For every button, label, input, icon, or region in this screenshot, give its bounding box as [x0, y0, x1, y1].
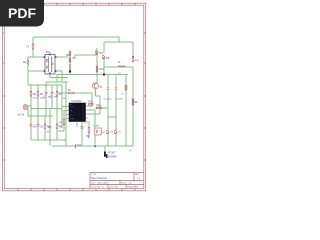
svg-text:AC IN: AC IN: [18, 114, 25, 117]
svg-text:RV: RV: [23, 61, 27, 64]
fuse F1: [27, 44, 34, 49]
IC U1 body: [69, 103, 86, 122]
svg-text:PC817: PC817: [93, 126, 100, 128]
capacitor C2: [50, 85, 58, 109]
resistor R3: [56, 85, 66, 109]
svg-text:R10: R10: [97, 105, 102, 107]
wire bridge output right: [50, 52, 68, 83]
zener Z1: [107, 129, 114, 134]
wire secondary rail: [97, 66, 133, 108]
junction node secondary: [103, 73, 105, 75]
svg-text:D3: D3: [100, 51, 104, 55]
inductor L1: [104, 62, 133, 75]
capacitor C3: [47, 109, 52, 147]
sense resistor tick: [76, 144, 82, 149]
svg-text:(24V/6R0): (24V/6R0): [106, 155, 117, 158]
resistor R9: [86, 121, 90, 139]
title block text: [91, 174, 141, 189]
transistor Q1: [93, 75, 104, 89]
capacitor C12: [81, 122, 89, 128]
svg-text:D6: D6: [106, 56, 110, 60]
wire opto links: [94, 121, 96, 146]
svg-text:New Channels: New Channels: [91, 177, 107, 180]
svg-text:Drawn By:: Drawn By:: [91, 187, 101, 189]
resistor R8 right: [132, 99, 138, 105]
capacitor C7: [121, 75, 127, 98]
optocoupler U2: [93, 126, 105, 136]
wire top rail: [33, 37, 119, 42]
resistor R2: [37, 85, 45, 109]
svg-text:JP OUT: JP OUT: [108, 153, 117, 155]
varistor RV1: [23, 60, 29, 65]
output port arrow: [104, 151, 117, 158]
AC connector J1: [18, 105, 28, 117]
wire IC connections: [58, 93, 100, 146]
ground arrow under snubber: [69, 64, 72, 74]
svg-text:VCC: VCC: [70, 106, 75, 108]
svg-text:GND: GND: [70, 118, 75, 120]
wire bulk rail left: [28, 71, 68, 85]
junction dot opto: [94, 145, 96, 147]
svg-text:2017-08-10: 2017-08-10: [98, 183, 110, 185]
wire AC line lower: [28, 108, 53, 116]
svg-text:HuadaSMD: HuadaSMD: [127, 187, 139, 189]
capacitor C1: [44, 82, 52, 116]
wire vertical feed columns: [62, 82, 66, 146]
zener Z2: [115, 129, 122, 134]
resistor R7 above IC: [68, 89, 74, 94]
svg-text:B1: B1: [46, 50, 50, 54]
resistor R4: [59, 119, 65, 132]
diode D4: [96, 60, 104, 75]
sheet border outer frame: [3, 3, 146, 191]
capacitor C5: [104, 75, 113, 101]
wire output rails bottom right: [105, 108, 133, 146]
resistor R14 on x133: [132, 56, 140, 62]
resistor R12 right of IC: [89, 101, 94, 106]
svg-text:Sheet:: Sheet:: [121, 182, 127, 185]
svg-text:Date:: Date:: [91, 182, 96, 185]
IC pin stubs: [67, 106, 89, 119]
resistor R5: [44, 116, 50, 140]
svg-text:REV:: REV:: [135, 174, 140, 176]
svg-text:R12: R12: [89, 101, 94, 104]
svg-text:U1 DK112: U1 DK112: [71, 101, 82, 103]
bridge rectifier B1: [44, 50, 57, 74]
diode D6 vertical right: [103, 55, 110, 75]
svg-text:Check By:: Check By:: [109, 187, 119, 189]
wire right columns: [96, 89, 127, 146]
resistor R6: [56, 109, 62, 141]
wire upper right step: [104, 42, 133, 58]
diode D3: [96, 48, 104, 60]
svg-text:TITLE:: TITLE:: [91, 174, 97, 176]
wire bottom rails: [31, 131, 105, 152]
wire AC line upper: [28, 106, 62, 109]
resistor R10: [97, 105, 102, 109]
wire AC upper to bridge: [28, 57, 44, 71]
electrolytic cap C8: [29, 109, 36, 141]
capacitor C6: [115, 75, 124, 101]
title block: [90, 173, 144, 189]
wire mid rail A: [57, 55, 104, 82]
PDF badge: [0, 0, 44, 27]
resistor R1: [30, 85, 38, 109]
electrolytic cap C9: [36, 109, 43, 141]
wire fuse drop: [32, 37, 34, 57]
svg-text:PDF: PDF: [8, 5, 36, 21]
snubber R-C stack D2: [66, 50, 76, 64]
border tick marks: [3, 3, 146, 191]
